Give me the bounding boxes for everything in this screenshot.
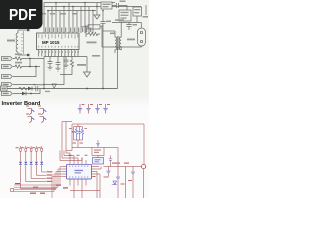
label C2 smudge bbox=[106, 21, 111, 23]
pin number smudges bottom of IC bbox=[38, 51, 79, 53]
U2 right pins bbox=[92, 167, 96, 177]
wire below circle bbox=[143, 169, 145, 198]
resistor R7 vertical below bus bbox=[60, 57, 74, 75]
junction dots left bbox=[29, 58, 45, 95]
wire U2 left pin routing bbox=[14, 167, 63, 199]
wire inner cluster bottom bbox=[74, 140, 83, 148]
bus label smudges bbox=[40, 13, 77, 15]
capacitor CB2 bbox=[86, 104, 93, 114]
connector pin bus bbox=[21, 31, 24, 54]
component box B2 bbox=[119, 10, 131, 21]
connector flag CN1 bbox=[2, 56, 13, 60]
wire bottom bus under IC bbox=[44, 56, 87, 58]
capacitor C4 top bbox=[112, 3, 127, 10]
label smudge bundle mid bbox=[30, 193, 36, 194]
pad bottom bbox=[27, 54, 29, 56]
wire link flags 1-2 bbox=[29, 59, 31, 67]
U2 left pins bbox=[63, 167, 67, 177]
component box B1 top right bbox=[101, 2, 112, 9]
capacitor C7 below bus bbox=[64, 57, 69, 66]
RC parallel group R5 C8 bbox=[81, 25, 102, 47]
junction dots rail bbox=[43, 88, 104, 90]
wire U2 right pin routing bbox=[93, 167, 101, 199]
capacitor CB4 bbox=[103, 104, 110, 114]
component box K1 bbox=[92, 148, 104, 156]
ground below C5 bbox=[48, 67, 53, 70]
transformer T1 bbox=[103, 23, 121, 54]
pad top bbox=[27, 29, 29, 31]
pin number row inside IC bottom bbox=[38, 46, 78, 48]
wire IC top pin drops bbox=[44, 3, 93, 34]
capacitor CR2 bbox=[116, 167, 120, 199]
svg-text:MP 1015: MP 1015 bbox=[42, 40, 60, 45]
zener DZ1 bbox=[112, 181, 117, 185]
capacitor CC2 inner bbox=[78, 127, 81, 141]
fuse F1 squiggle on rail bbox=[19, 87, 27, 90]
op-amp U2 blue IC bbox=[67, 164, 92, 179]
svg-text:PDF: PDF bbox=[9, 7, 37, 24]
capacitor C10 on rail bbox=[33, 84, 38, 92]
label R3 smudge bbox=[15, 62, 22, 64]
U2 top pins bbox=[70, 158, 86, 165]
transistor Q2 bbox=[40, 109, 44, 115]
wire inner bottom edge bbox=[72, 147, 92, 149]
label Lamp smudge bbox=[127, 39, 135, 41]
terminal symbol left of bundle bbox=[11, 189, 14, 192]
wire top bus 1 bbox=[44, 2, 115, 4]
wire lamp bottom to net bbox=[102, 46, 142, 89]
connector flag CN4 bbox=[2, 82, 13, 86]
U2 bottom pins bbox=[70, 179, 86, 198]
inductor L1 left coil bbox=[16, 30, 18, 55]
label CD smudge bbox=[115, 19, 124, 21]
junction dots on top buses bbox=[47, 2, 104, 12]
transistor Q1 bbox=[28, 109, 32, 115]
label C4 smudge bbox=[120, 1, 126, 3]
wire link under U2 bbox=[70, 190, 100, 192]
wire inner cluster top bbox=[74, 124, 83, 127]
wire inner bottom edge right bbox=[104, 148, 118, 167]
capacitor CB1 bbox=[78, 104, 85, 114]
wire big red loop bbox=[72, 124, 144, 164]
LED column 4 bbox=[32, 146, 46, 175]
ground G1 top bbox=[94, 3, 100, 20]
LED column 2 bbox=[21, 146, 46, 182]
svg-text:Inverter Board: Inverter Board bbox=[2, 101, 41, 107]
net label smudges bbox=[47, 171, 53, 172]
label R5 smudge bbox=[87, 42, 97, 44]
transistor Q4 bbox=[40, 117, 44, 123]
LED column 5 bbox=[38, 146, 47, 172]
wire coil bottom lead bbox=[18, 54, 27, 56]
label smudge bundle mid2 bbox=[40, 193, 45, 194]
schematic page background bbox=[0, 0, 149, 198]
wire vertical V2 bbox=[125, 167, 127, 199]
label D2 smudge bbox=[45, 91, 50, 92]
label smudge above rail bbox=[39, 84, 44, 85]
U2 pin number rows inside bbox=[69, 166, 88, 178]
wire flag5 bbox=[13, 93, 22, 95]
wire top bus 2 bbox=[44, 6, 141, 8]
wire coil top lead bbox=[18, 29, 27, 31]
label R2 smudge bbox=[15, 54, 22, 56]
capacitor C6 below bus bbox=[56, 57, 61, 69]
capacitor C5 below bus bbox=[48, 57, 53, 68]
label R7 smudge bbox=[77, 64, 86, 66]
wire right edge stub bbox=[145, 5, 147, 15]
wire main bottom rail bbox=[7, 88, 118, 90]
connector circle P1 bbox=[141, 164, 145, 168]
capacitor CA1 above rail bbox=[109, 156, 113, 167]
wire top bus 3 bbox=[48, 10, 96, 12]
capacitor CR3 bbox=[131, 167, 135, 199]
LED column 1 bbox=[16, 146, 57, 189]
label CN6 smudge bbox=[143, 16, 149, 18]
label T1 smudge bbox=[110, 33, 115, 35]
label Panel smudge bbox=[7, 40, 15, 42]
label smudges on output rail bbox=[112, 163, 120, 164]
label smudge far left bundle bbox=[15, 183, 20, 184]
ground below C6 bbox=[56, 68, 61, 71]
label smudge inner cluster b bbox=[80, 143, 84, 144]
capacitor C9 bbox=[126, 23, 131, 31]
terminal tag left bbox=[1, 86, 8, 91]
transistor Q3 bbox=[28, 117, 32, 123]
label smudges bottom right bbox=[121, 184, 125, 185]
label GND smudge bbox=[92, 55, 100, 57]
op-amp U1 IC body MP 1015 bbox=[37, 33, 80, 50]
component box B3 bbox=[133, 7, 142, 16]
connector flag CN5 bbox=[2, 91, 13, 95]
resistor R2 on flag1 wire bbox=[13, 57, 44, 60]
resistor RC1 inner bbox=[75, 127, 77, 140]
capacitor CR1 bbox=[104, 167, 111, 178]
wire K1-K2 bbox=[97, 156, 99, 158]
diode D2 on rail bbox=[28, 87, 32, 91]
arrow A1 bbox=[52, 84, 56, 88]
pin label smudges above U2 bbox=[69, 155, 72, 156]
label smudges inner bbox=[69, 127, 72, 130]
capacitor CK1 above box bbox=[96, 140, 100, 148]
label smudges near bundle bbox=[56, 185, 61, 186]
LED column 3 bbox=[27, 146, 47, 178]
label C9 smudge bbox=[133, 24, 138, 26]
label smudge inner cluster a bbox=[73, 143, 77, 144]
wire vertical x44 bbox=[43, 57, 45, 89]
resistor R3 on flag2 wire bbox=[13, 65, 40, 68]
pin number row inside IC top bbox=[38, 34, 78, 39]
PDF badge bbox=[0, 0, 43, 29]
wire IC bottom pin stubs bbox=[39, 50, 88, 57]
wire output rail bbox=[104, 166, 142, 168]
wire flag4 bbox=[13, 57, 64, 85]
capacitor C2 x103 bbox=[100, 11, 105, 89]
wire flag3 bbox=[13, 67, 36, 77]
connector flag CN2 bbox=[2, 64, 13, 68]
ground below C7 bbox=[64, 65, 69, 68]
wire nested bends to U2 top bbox=[60, 122, 82, 161]
ground G3 triangle bbox=[84, 57, 91, 78]
lamp LP1 bbox=[138, 28, 146, 46]
diode D1 on flag5 wire bbox=[22, 92, 26, 96]
connector flag CN3 bbox=[2, 74, 13, 78]
component box K2 blue bbox=[93, 158, 104, 165]
capacitor CC1 inner bbox=[72, 127, 75, 141]
capacitor CB3 bbox=[95, 104, 102, 114]
wire secondary top net bbox=[112, 16, 141, 28]
pin number smudges top of IC bbox=[45, 28, 91, 33]
resistor RC2 inner bbox=[81, 127, 83, 140]
